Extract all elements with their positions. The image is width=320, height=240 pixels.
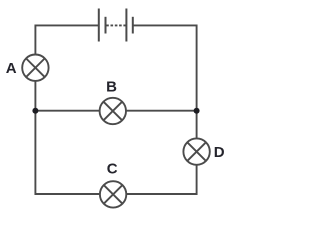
wire left rail below lamp A, bottom-left corner, bottom rail to lamp C <box>35 81 100 194</box>
lamp A (circle with X) <box>22 54 48 80</box>
wire middle rail right (lamp B to node) <box>126 110 197 112</box>
svg-text:D: D <box>214 144 225 161</box>
battery BT1 cell 2 long plate (+) <box>125 9 127 42</box>
battery BT1 dashed link between cells <box>106 24 126 26</box>
wire right rail above lamp D, top-right corner, top rail to battery <box>133 25 197 138</box>
battery BT1 cell 2 short plate (-) <box>132 17 134 34</box>
node junction left (middle rail meets left rail) <box>32 108 38 114</box>
lamp D (circle with X) <box>183 138 209 164</box>
lamp B (circle with X) <box>100 98 126 124</box>
wire bottom rail from lamp C, bottom-right corner, right rail up to lamp D <box>126 165 196 194</box>
svg-text:A: A <box>6 60 17 77</box>
svg-text:B: B <box>106 78 117 95</box>
wire middle rail left (node to lamp B) <box>35 110 99 112</box>
lamp C (circle with X) <box>100 181 126 207</box>
svg-text:C: C <box>107 161 118 178</box>
battery BT1 cell 1 long plate (+) <box>98 9 100 42</box>
battery BT1 cell 1 short plate (-) <box>105 17 107 34</box>
node junction right (middle rail meets right rail) <box>194 108 200 114</box>
wire top-left segment (battery to top-left corner, left rail down to lamp A) <box>35 25 98 54</box>
